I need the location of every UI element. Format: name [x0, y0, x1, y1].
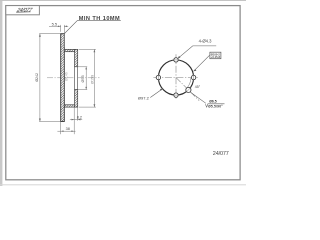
- bolt hole W: [156, 75, 160, 79]
- logo underline: [16, 11, 30, 13]
- bottom dim ext B (flange right): [77, 107, 79, 120]
- svg-text:8.2: 8.2: [77, 115, 82, 119]
- svg-text:Ø6.5: Ø6.5: [209, 100, 216, 104]
- svg-text:Ø146: Ø146: [65, 72, 69, 81]
- front view vertical centerline: [175, 54, 177, 99]
- drawing border frame: [6, 6, 240, 180]
- leader 4-Ø4.3: [178, 46, 217, 59]
- bore dim extension lines: [78, 66, 88, 68]
- svg-text:24/077: 24/077: [213, 151, 229, 157]
- flange thickness dim line: [70, 119, 82, 121]
- svg-text:+0.15·8: +0.15·8: [211, 55, 221, 59]
- bottom dim ext C (plate left): [60, 122, 62, 134]
- hole S tick: [173, 94, 180, 96]
- countersink symbol: [205, 104, 224, 107]
- bolt circle: [158, 60, 193, 95]
- disc plate (friction ring, hatched): [61, 34, 65, 122]
- page background: [0, 0, 246, 186]
- dim Ø242 line: [39, 34, 41, 122]
- svg-text:Ø55: Ø55: [81, 75, 85, 82]
- svg-text:Ø159: Ø159: [90, 75, 94, 84]
- svg-text:45°: 45°: [195, 85, 201, 89]
- svg-text:38: 38: [66, 127, 70, 131]
- hole N tick: [173, 59, 180, 61]
- svg-text:MIN TH 10MM: MIN TH 10MM: [79, 16, 120, 22]
- scan bottom faint line: [0, 184, 246, 185]
- hole W tick: [157, 74, 159, 81]
- svg-text:Ø242: Ø242: [35, 73, 39, 82]
- section centerline: [47, 77, 100, 79]
- 45deg diagonal centerline: [176, 78, 199, 101]
- angle arc 45deg: [187, 78, 191, 88]
- leader Ø97.2: [150, 89, 163, 98]
- leader Ø6.5: [190, 92, 206, 103]
- dim 5.5 extension lines: [60, 25, 62, 32]
- bolt hole N: [174, 58, 178, 62]
- bore dim line: [85, 67, 87, 90]
- dim Ø242 extension bottom: [39, 121, 60, 123]
- bolt hole E: [191, 75, 195, 79]
- title box: [6, 6, 40, 15]
- hole E tick: [193, 74, 195, 81]
- hub OD dim extension lines: [79, 48, 96, 50]
- hub drum bottom wall: [64, 105, 75, 107]
- center bore void: [75, 67, 78, 90]
- hub mounting flange lower part: [75, 90, 78, 108]
- hub mounting flange upper part: [75, 49, 78, 66]
- svg-text:Ø97.2: Ø97.2: [138, 96, 150, 101]
- locating hole SE: [186, 87, 191, 92]
- locating hole tick: [186, 87, 192, 93]
- scan top gray line: [0, 0, 246, 1]
- bottom dim ext A (flange left, long): [73, 107, 75, 134]
- bolt hole S: [174, 93, 178, 97]
- min thickness note leader: [65, 21, 121, 34]
- dim Ø242 extension top: [39, 33, 60, 35]
- front view horizontal centerline: [153, 77, 197, 79]
- svg-text:5.5: 5.5: [52, 21, 58, 26]
- svg-text:4-Ø4.3: 4-Ø4.3: [199, 38, 212, 43]
- svg-text:24/077: 24/077: [15, 8, 34, 14]
- boxed label leader: [194, 55, 210, 71]
- overall hat dim line: [57, 130, 75, 132]
- hub drum top wall: [64, 49, 75, 51]
- dim 5.5 line: [49, 25, 61, 27]
- boxed label: [210, 52, 221, 59]
- hub OD dim line: [93, 49, 95, 107]
- svg-text:Ø5.5/90°: Ø5.5/90°: [208, 104, 223, 108]
- scan left gray strip: [0, 0, 2, 186]
